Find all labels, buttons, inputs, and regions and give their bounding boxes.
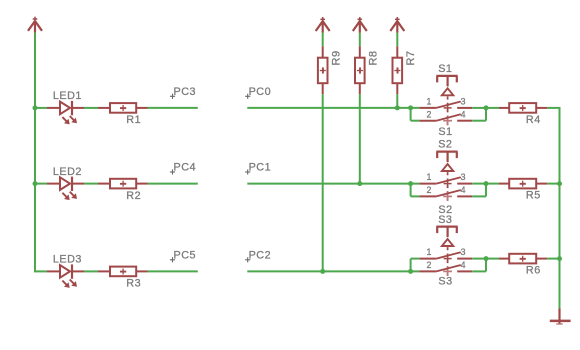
- wire right ground bus vertical: [559, 108, 561, 309]
- wire bus to LED1: [35, 107, 47, 109]
- ground symbol GND: [550, 309, 571, 325]
- node junction S1 left: [408, 105, 413, 110]
- svg-text:PC2: PC2: [249, 249, 272, 261]
- label LED1 name: [53, 90, 82, 102]
- svg-text:PC4: PC4: [174, 162, 197, 174]
- wire bus to LED3: [35, 270, 47, 272]
- wire LED3 to R3: [84, 270, 98, 272]
- svg-text:1: 1: [426, 172, 431, 182]
- svg-text:R4: R4: [526, 114, 541, 126]
- wire left VCC bus vertical: [34, 33, 36, 273]
- resistor R3: [98, 267, 148, 277]
- node junction R9 / PC2 row: [320, 269, 325, 274]
- wire bus to LED2: [35, 183, 47, 185]
- label S3 name (bottom): [438, 275, 452, 287]
- svg-text:1: 1: [426, 96, 431, 106]
- switch S1 pole pins 1-3: [419, 102, 472, 108]
- svg-text:4: 4: [461, 185, 466, 195]
- wire R1 to net end: [148, 107, 198, 109]
- power symbol VCC (left supply arrow): [28, 17, 42, 33]
- svg-text:R1: R1: [126, 114, 141, 126]
- power symbol VCC above R7: [390, 17, 404, 33]
- label R6 name: [526, 265, 541, 277]
- wire S3 left branch: [411, 259, 420, 272]
- pin number 2 of S1: [426, 110, 431, 120]
- wire R8 down to row: [359, 94, 361, 183]
- label R5 name: [526, 190, 541, 202]
- wire R5 to right bus: [547, 183, 560, 185]
- svg-text:PC0: PC0: [249, 86, 272, 98]
- wire R3 to net end: [148, 270, 198, 272]
- switch S1 pole pins 2-4: [419, 114, 472, 120]
- svg-text:LED2: LED2: [53, 166, 82, 178]
- power symbol VCC above R9: [316, 17, 330, 33]
- wire VCC to R9: [322, 33, 324, 47]
- svg-text:S1: S1: [438, 63, 452, 75]
- wire LED1 to R1: [84, 107, 98, 109]
- svg-text:S1: S1: [438, 126, 452, 138]
- switch S2 pole pins 2-4: [419, 190, 472, 196]
- wire R6 to right bus: [547, 258, 560, 260]
- svg-text:R8: R8: [367, 50, 379, 65]
- wire S1 left branch: [411, 108, 420, 121]
- wire R2 to net end: [148, 183, 198, 185]
- resistor R9 (vertical): [318, 46, 328, 94]
- svg-text:R9: R9: [330, 50, 342, 65]
- switch S2 actuator bracket: [436, 152, 457, 163]
- switch S3 pole pins 1-3: [419, 252, 472, 258]
- switch S2 actuator dashed link: [443, 172, 452, 201]
- switch S2 actuator triangle: [442, 164, 453, 171]
- node junction R6 / right bus: [557, 256, 562, 261]
- label LED2 name: [53, 166, 82, 178]
- label S2 name (bottom): [438, 204, 452, 216]
- net label PC5: [170, 249, 196, 262]
- svg-text:LED1: LED1: [53, 90, 82, 102]
- svg-text:R2: R2: [126, 190, 141, 202]
- switch S3 actuator dashed link: [443, 247, 452, 276]
- svg-text:S3: S3: [438, 214, 452, 226]
- label LED3 name: [53, 254, 82, 266]
- label S3 name (top): [438, 214, 452, 226]
- label S1 name (bottom): [438, 126, 452, 138]
- wire S3 right branch: [472, 259, 486, 272]
- label S1 name (top): [438, 63, 452, 75]
- LED LED2: [47, 177, 84, 201]
- wire net PC0 row: [247, 107, 419, 109]
- pin number 2 of S2: [426, 185, 431, 195]
- net label PC3: [170, 86, 196, 99]
- wire LED2 to R2: [84, 183, 98, 185]
- label R9 name (rotated): [330, 50, 342, 65]
- switch S1 actuator bracket: [436, 76, 457, 87]
- resistor R8 (vertical): [355, 46, 365, 94]
- svg-text:R5: R5: [526, 190, 541, 202]
- svg-text:1: 1: [426, 247, 431, 257]
- pin number 3 of S2: [461, 172, 466, 182]
- node junction S1 right: [484, 105, 489, 110]
- svg-text:PC1: PC1: [249, 162, 272, 174]
- wire net PC2 row: [247, 270, 419, 272]
- resistor R2: [98, 179, 148, 189]
- svg-text:4: 4: [461, 260, 466, 270]
- pin number 1 of S3: [426, 247, 431, 257]
- node junction R7 / PC0 row: [395, 105, 400, 110]
- node junction S3 left: [408, 269, 413, 274]
- net label PC4: [170, 162, 196, 175]
- wire R9 down to row: [322, 94, 324, 271]
- label R8 name (rotated): [367, 50, 379, 65]
- svg-text:PC5: PC5: [174, 249, 197, 261]
- svg-text:S3: S3: [438, 275, 452, 287]
- wire VCC to R8: [359, 33, 361, 47]
- wire R4 to right bus: [547, 107, 560, 109]
- node junction S2 right: [484, 181, 489, 186]
- label S2 name (top): [438, 139, 452, 151]
- wire S2 right branch: [472, 184, 486, 197]
- svg-text:PC3: PC3: [174, 86, 197, 98]
- svg-text:R6: R6: [526, 265, 541, 277]
- resistor R7 (vertical): [393, 46, 403, 94]
- svg-text:3: 3: [461, 172, 466, 182]
- node junction S2 left: [408, 181, 413, 186]
- pin number 4 of S3: [461, 260, 466, 270]
- wire R7 down to row: [396, 94, 398, 108]
- pin number 4 of S2: [461, 185, 466, 195]
- resistor R6: [486, 254, 547, 264]
- svg-text:4: 4: [461, 110, 466, 120]
- pin number 3 of S3: [461, 247, 466, 257]
- LED LED3: [47, 264, 84, 288]
- label R4 name: [526, 114, 541, 126]
- wire VCC to R7: [396, 33, 398, 47]
- svg-text:LED3: LED3: [53, 254, 82, 266]
- svg-text:3: 3: [461, 96, 466, 106]
- resistor R1: [98, 103, 148, 113]
- svg-text:R3: R3: [126, 278, 141, 290]
- svg-text:S2: S2: [438, 139, 452, 151]
- switch S3 actuator triangle: [442, 239, 453, 246]
- pin number 2 of S3: [426, 260, 431, 270]
- pin number 1 of S1: [426, 96, 431, 106]
- svg-text:2: 2: [426, 260, 431, 270]
- label R7 name (rotated): [405, 50, 417, 65]
- pin number 4 of S1: [461, 110, 466, 120]
- node junction S3 right: [484, 256, 489, 261]
- label R3 name: [126, 278, 141, 290]
- svg-text:2: 2: [426, 110, 431, 120]
- svg-text:3: 3: [461, 247, 466, 257]
- pin number 3 of S1: [461, 96, 466, 106]
- wire S1 right branch: [472, 108, 486, 121]
- switch S2 pole pins 1-3: [419, 177, 472, 183]
- net label PC1: [245, 162, 271, 175]
- switch S3 pole pins 2-4: [419, 265, 472, 271]
- pin number 1 of S2: [426, 172, 431, 182]
- node junction R8 / PC1 row: [357, 181, 362, 186]
- label R1 name: [126, 114, 141, 126]
- node junction R5 / right bus: [557, 181, 562, 186]
- switch S1 actuator triangle: [442, 88, 453, 95]
- label R2 name: [126, 190, 141, 202]
- net label PC2: [245, 249, 271, 262]
- switch S1 actuator dashed link: [443, 96, 452, 125]
- wire S2 left branch: [411, 184, 420, 197]
- svg-text:2: 2: [426, 185, 431, 195]
- net label PC0: [245, 86, 271, 99]
- LED LED1: [47, 101, 84, 125]
- resistor R5: [486, 179, 547, 189]
- resistor R4: [486, 103, 547, 113]
- switch S3 actuator bracket: [436, 227, 457, 238]
- power symbol VCC above R8: [353, 17, 367, 33]
- node junction left bus / LED1 row: [33, 105, 38, 110]
- svg-text:R7: R7: [405, 50, 417, 65]
- wire net PC1 row: [247, 183, 419, 185]
- node junction left bus / LED2 row: [33, 181, 38, 186]
